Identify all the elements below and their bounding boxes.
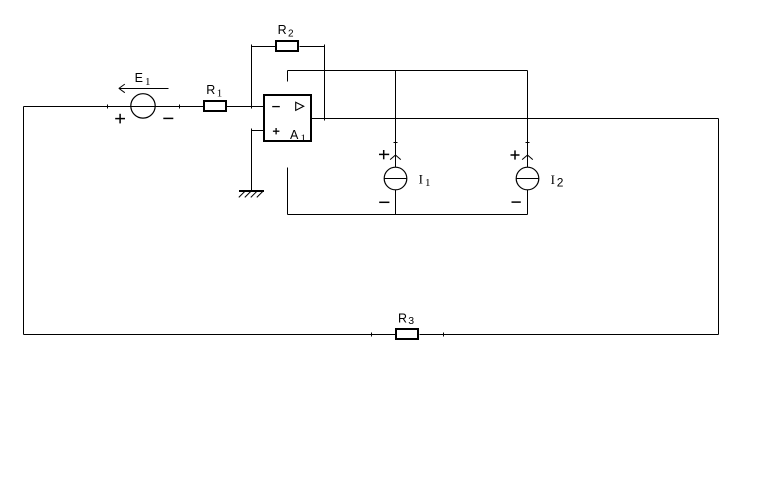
svg-text:1: 1 (301, 132, 307, 144)
svg-text:3: 3 (408, 315, 414, 327)
svg-text:1: 1 (217, 88, 223, 100)
svg-text:2: 2 (557, 176, 564, 190)
svg-text:1: 1 (145, 76, 151, 88)
svg-text:R: R (206, 83, 215, 97)
svg-text:E: E (135, 71, 143, 85)
svg-text:1: 1 (425, 177, 431, 189)
svg-text:I: I (551, 172, 555, 187)
svg-text:R: R (398, 311, 407, 325)
svg-text:R: R (278, 23, 287, 37)
svg-text:2: 2 (288, 29, 294, 40)
svg-text:A: A (290, 128, 299, 142)
svg-text:I: I (419, 172, 423, 187)
